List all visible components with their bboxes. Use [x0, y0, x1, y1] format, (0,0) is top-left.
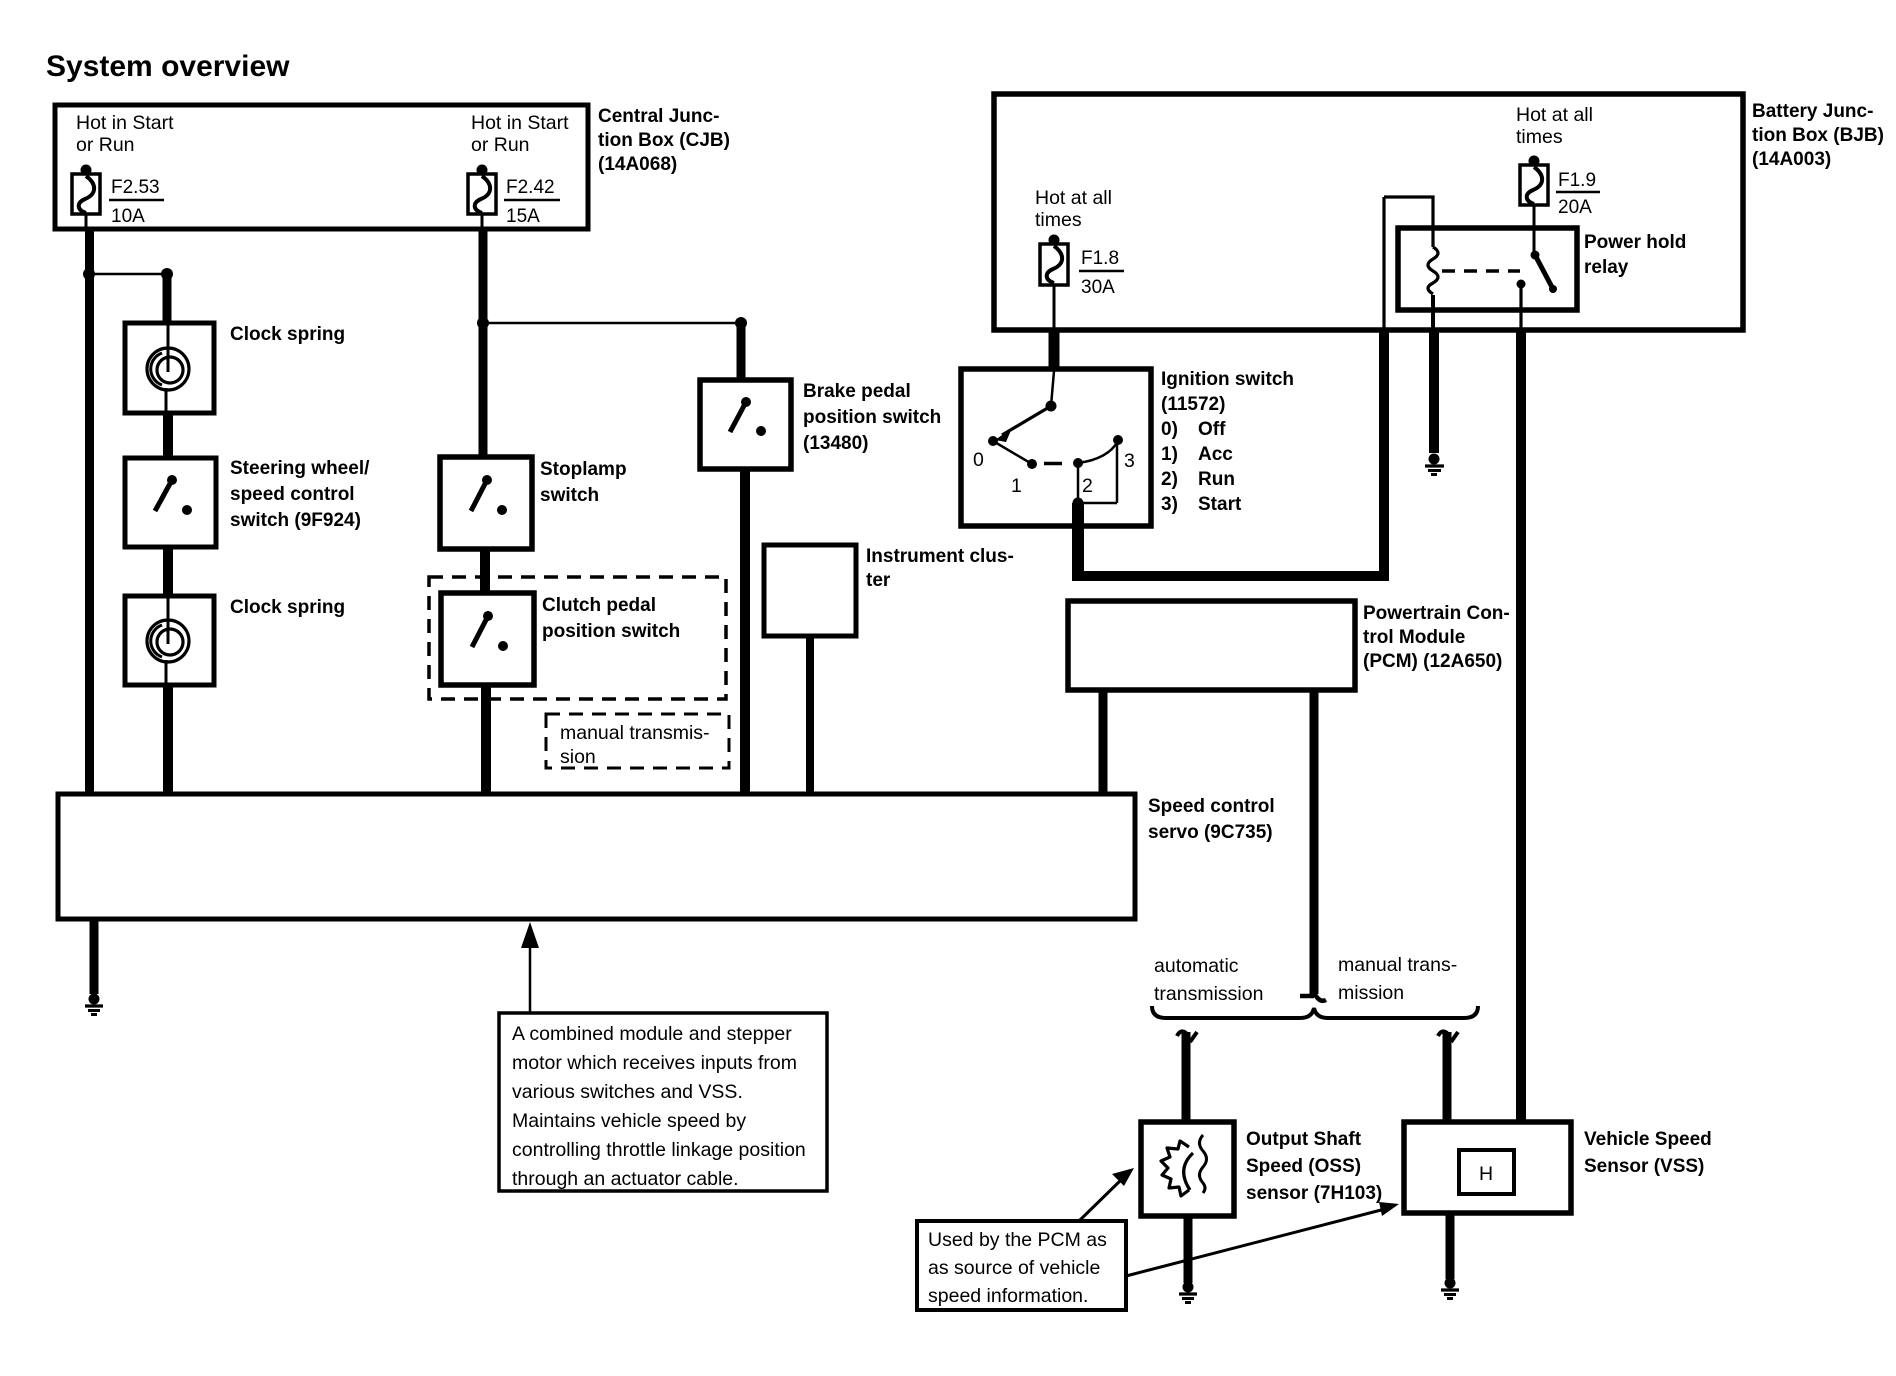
switch: stoplamp — [440, 457, 532, 549]
svg-text:Hot at all: Hot at all — [1516, 104, 1593, 126]
switch: steering wheel / speed control (9F924) — [125, 458, 216, 547]
svg-text:Output Shaft: Output Shaft — [1246, 1129, 1362, 1150]
wire: F2.42 down to stoplamp switch — [479, 229, 488, 459]
svg-text:(13480): (13480) — [803, 433, 869, 454]
ignition switch (11572) — [961, 369, 1151, 526]
svg-text:manual transmis-: manual transmis- — [560, 722, 710, 744]
svg-text:System overview: System overview — [46, 50, 290, 83]
label Steering wheel/ speed control switch (9F924) — [230, 458, 370, 531]
svg-text:0): 0) — [1161, 419, 1178, 440]
svg-text:F1.9: F1.9 — [1558, 170, 1596, 191]
svg-text:Battery Junc-: Battery Junc- — [1752, 101, 1873, 122]
label Battery Junction Box (BJB) (14A003) — [1752, 101, 1884, 170]
svg-text:position switch: position switch — [803, 407, 941, 428]
svg-text:speed information.: speed information. — [928, 1285, 1088, 1307]
wire VSS to ground — [1446, 1213, 1455, 1279]
OSS sensor (7H103) — [1141, 1122, 1234, 1216]
label Central Junction Box (CJB) (14A068) — [598, 106, 730, 175]
svg-text:various switches and VSS.: various switches and VSS. — [512, 1081, 743, 1103]
wire brake switch down to servo — [740, 469, 750, 796]
clock spring 1 — [125, 323, 214, 413]
svg-text:Clock spring: Clock spring — [230, 597, 345, 618]
annotation arrow to VSS — [1126, 1202, 1399, 1276]
svg-text:F1.8: F1.8 — [1081, 248, 1119, 269]
wire PCM to servo — [1099, 690, 1108, 796]
svg-text:(14A068): (14A068) — [598, 154, 677, 175]
wire clock2 down to servo — [163, 685, 173, 796]
relay coil — [1428, 247, 1438, 294]
label automatic transmission — [1154, 955, 1263, 1005]
annotation arrow to OSS — [1079, 1168, 1134, 1221]
wire F1.8 down to ignition switch — [1049, 330, 1060, 370]
svg-text:1: 1 — [1011, 475, 1022, 497]
svg-text:as source of vehicle: as source of vehicle — [928, 1257, 1100, 1279]
net label Hot at all times (F1.9) — [1516, 104, 1593, 148]
switch: brake pedal position (13480) — [700, 380, 791, 469]
svg-text:Central Junc-: Central Junc- — [598, 106, 719, 127]
wire ignition output to relay coil — [1073, 197, 1389, 581]
svg-text:times: times — [1035, 209, 1082, 231]
label Speed control servo (9C735) — [1148, 796, 1275, 843]
wire brace to OSS sensor (arrow) — [1177, 1031, 1197, 1123]
wire relay output down to VSS — [1516, 330, 1526, 1122]
Battery Junction Box (BJB) — [994, 94, 1743, 330]
value label F1.9 / 20A — [1556, 170, 1600, 218]
label Powertrain Control Module (PCM) (12A650) — [1363, 603, 1510, 672]
node branch dot (brake) — [735, 317, 747, 329]
svg-text:through an actuator cable.: through an actuator cable. — [512, 1168, 739, 1190]
label Instrument clus-ter — [866, 546, 1014, 591]
svg-text:2: 2 — [1082, 475, 1093, 497]
wire OSS to ground — [1184, 1216, 1193, 1283]
svg-text:Stoplamp: Stoplamp — [540, 459, 627, 480]
label Ignition switch (11572) positions — [1161, 369, 1294, 515]
svg-text:Hot at all: Hot at all — [1035, 187, 1112, 209]
svg-text:Start: Start — [1198, 494, 1242, 515]
wire clutch down to servo — [481, 685, 491, 796]
fuse F1.8 30A — [1040, 235, 1068, 331]
svg-text:20A: 20A — [1558, 197, 1592, 218]
svg-text:position switch: position switch — [542, 621, 680, 642]
speed control servo box (9C735) — [58, 794, 1135, 919]
wire instrument cluster down to servo — [806, 636, 814, 796]
ground (OSS) — [1179, 1282, 1197, 1303]
svg-text:Steering wheel/: Steering wheel/ — [230, 458, 370, 479]
net label Hot at all times (F1.8) — [1035, 187, 1112, 231]
node branch dot — [161, 268, 173, 280]
wire: branch link — [89, 273, 167, 276]
svg-text:Sensor (VSS): Sensor (VSS) — [1584, 1156, 1704, 1177]
svg-text:(11572): (11572) — [1161, 394, 1225, 415]
wire brace to VSS (arrow) — [1438, 1031, 1458, 1123]
value label F2.53 / 10A — [109, 177, 164, 227]
svg-text:or Run: or Run — [76, 134, 135, 156]
svg-text:(PCM) (12A650): (PCM) (12A650) — [1363, 651, 1502, 672]
ground (VSS) — [1441, 1278, 1459, 1299]
fuse F2.42 15A — [468, 165, 496, 230]
svg-text:Off: Off — [1198, 419, 1226, 440]
svg-text:Power hold: Power hold — [1584, 232, 1686, 253]
annotation box: Used by the PCM — [917, 1221, 1126, 1310]
wire: branch down to brake pedal switch — [737, 323, 746, 381]
svg-text:trol Module: trol Module — [1363, 627, 1465, 648]
relay actuation dashed link — [1442, 269, 1520, 273]
net label Hot in Start or Run (right) — [471, 112, 569, 156]
clutch pedal dashed enclosure — [429, 577, 726, 699]
wire coil to ground — [1431, 295, 1435, 332]
wire: F2.53 down to servo — [85, 229, 94, 796]
svg-text:Used by the PCM as: Used by the PCM as — [928, 1229, 1107, 1251]
svg-text:Clutch pedal: Clutch pedal — [542, 595, 656, 616]
svg-text:15A: 15A — [506, 206, 540, 227]
annotation arrow to servo — [521, 922, 539, 1013]
manual transmission dashed note box — [546, 714, 729, 768]
vehicle speed sensor VSS — [1404, 1122, 1571, 1213]
relay switch contact — [1517, 251, 1558, 331]
wire servo to ground — [90, 919, 99, 994]
fuse F1.9 20A — [1520, 156, 1548, 256]
svg-text:F2.53: F2.53 — [111, 177, 160, 198]
wire: branch link to brake pedal switch — [483, 322, 741, 325]
svg-text:or Run: or Run — [471, 134, 530, 156]
instrument cluster box — [764, 545, 856, 636]
svg-text:manual trans-: manual trans- — [1338, 954, 1457, 976]
svg-text:Ignition switch: Ignition switch — [1161, 369, 1294, 390]
svg-text:switch: switch — [540, 485, 599, 506]
label Vehicle Speed Sensor (VSS) — [1584, 1129, 1712, 1177]
svg-text:3: 3 — [1124, 450, 1135, 472]
svg-text:H: H — [1479, 1163, 1493, 1185]
svg-text:Hot in Start: Hot in Start — [471, 112, 569, 134]
svg-text:servo (9C735): servo (9C735) — [1148, 822, 1273, 843]
Central Junction Box (CJB) — [55, 105, 588, 229]
net label Hot in Start or Run (left) — [76, 112, 174, 156]
label manual trans-mission — [1338, 954, 1457, 1004]
fuse F2.53 10A — [72, 165, 100, 230]
node junction on left wire — [83, 268, 95, 280]
ground (relay coil) — [1425, 454, 1444, 475]
wire steering to clock2 — [163, 547, 173, 597]
svg-text:transmission: transmission — [1154, 983, 1263, 1005]
svg-text:relay: relay — [1584, 257, 1629, 278]
value label F1.8 / 30A — [1079, 248, 1124, 298]
node junction on stoplamp wire — [477, 317, 489, 329]
svg-text:switch (9F924): switch (9F924) — [230, 510, 361, 531]
svg-text:Vehicle Speed: Vehicle Speed — [1584, 1129, 1712, 1150]
label Clutch pedal position switch — [542, 595, 680, 642]
svg-text:Hot in Start: Hot in Start — [76, 112, 174, 134]
value label F2.42 / 15A — [504, 177, 560, 227]
wire PCM down to transmission brace — [1300, 690, 1326, 1001]
label Power hold relay — [1584, 232, 1686, 278]
svg-text:Powertrain Con-: Powertrain Con- — [1363, 603, 1510, 624]
label Output Shaft Speed (OSS) sensor (7H103) — [1246, 1129, 1382, 1204]
svg-text:automatic: automatic — [1154, 955, 1239, 977]
wire: branch down to clock spring 1 — [163, 274, 172, 324]
svg-text:Instrument clus-: Instrument clus- — [866, 546, 1014, 567]
svg-text:Run: Run — [1198, 469, 1235, 490]
transmission selector brace — [1152, 1006, 1478, 1018]
svg-text:Brake pedal: Brake pedal — [803, 381, 911, 402]
svg-text:speed control: speed control — [230, 484, 355, 505]
ground (servo) — [85, 994, 103, 1015]
svg-text:Maintains vehicle speed by: Maintains vehicle speed by — [512, 1110, 746, 1132]
wire: relay coil feed loop — [1384, 197, 1433, 247]
svg-text:tion Box (BJB): tion Box (BJB) — [1752, 125, 1884, 146]
svg-text:Acc: Acc — [1198, 444, 1233, 465]
label Stoplamp switch — [540, 459, 627, 506]
svg-text:0: 0 — [973, 449, 984, 471]
svg-text:Clock spring: Clock spring — [230, 324, 345, 345]
svg-text:motor which receives inputs fr: motor which receives inputs from — [512, 1052, 797, 1074]
svg-text:(14A003): (14A003) — [1752, 149, 1831, 170]
wire stoplamp to clutch switch — [480, 549, 490, 595]
svg-text:Speed control: Speed control — [1148, 796, 1275, 817]
svg-text:ter: ter — [866, 570, 891, 591]
svg-text:sensor (7H103): sensor (7H103) — [1246, 1183, 1382, 1204]
power hold relay K1 — [1398, 228, 1577, 310]
annotation box: servo description — [499, 1013, 827, 1191]
svg-text:1): 1) — [1161, 444, 1178, 465]
svg-text:30A: 30A — [1081, 277, 1115, 298]
svg-text:3): 3) — [1161, 494, 1178, 515]
svg-text:controlling throttle linkage p: controlling throttle linkage position — [512, 1139, 806, 1161]
svg-text:tion Box (CJB): tion Box (CJB) — [598, 130, 730, 151]
svg-text:F2.42: F2.42 — [506, 177, 555, 198]
Powertrain Control Module (PCM) — [1068, 601, 1355, 690]
svg-text:Speed (OSS): Speed (OSS) — [1246, 1156, 1361, 1177]
label manual transmis-sion — [560, 722, 710, 768]
label Brake pedal position switch (13480) — [803, 381, 941, 454]
svg-text:10A: 10A — [111, 206, 145, 227]
svg-text:sion: sion — [560, 746, 596, 768]
svg-text:2): 2) — [1161, 469, 1178, 490]
svg-text:mission: mission — [1338, 982, 1404, 1004]
clock spring 2 — [125, 596, 214, 685]
svg-text:times: times — [1516, 126, 1563, 148]
switch: clutch pedal position — [441, 593, 534, 685]
svg-text:A combined module and stepper: A combined module and stepper — [512, 1023, 792, 1045]
wire clock1 to steering switch — [163, 413, 173, 459]
